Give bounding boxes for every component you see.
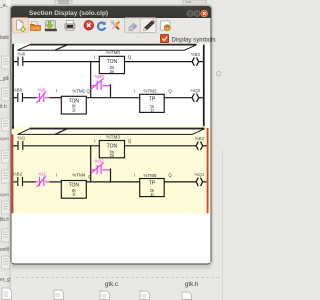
coil %B0 <box>191 52 203 66</box>
svg-text:%I0: %I0 <box>38 87 46 92</box>
drawing area <box>12 44 211 264</box>
svg-text:%B0: %B0 <box>191 52 201 57</box>
svg-text:lib.h: lib.h <box>0 217 9 223</box>
contact %I0 rung1 <box>14 51 26 66</box>
wire rung3 to timer <box>23 145 99 147</box>
wire rung2 a <box>23 97 36 99</box>
print <box>65 20 75 30</box>
svg-text:%I1: %I1 <box>18 136 26 141</box>
right power rail (section 2, powered red) <box>207 128 209 213</box>
wire TM4 to TM5 <box>86 181 139 183</box>
bottom file manager area <box>2 278 219 300</box>
wire TM1 to TM2 <box>86 97 139 99</box>
svg-text:%TM0: %TM0 <box>106 50 120 55</box>
rung separator bar 1 <box>18 45 197 51</box>
wire TM3 to coil <box>125 145 197 147</box>
svg-text:%B2: %B2 <box>195 136 205 141</box>
svg-text:I: I <box>94 139 95 144</box>
toolbar <box>12 18 170 33</box>
timer TM5 <box>134 173 173 197</box>
rung separator bar 2 <box>18 129 205 135</box>
svg-text:TP: TP <box>149 181 156 187</box>
svg-text:%TM2: %TM2 <box>143 89 156 94</box>
open folder <box>31 22 41 31</box>
left power rail (section 1) <box>12 44 14 129</box>
delete (red X) <box>84 20 94 30</box>
svg-text:%I0: %I0 <box>18 51 26 56</box>
branch contact %B0 (forced NC) <box>91 74 111 90</box>
contact %I0 (forced NC) rung2 <box>36 87 50 103</box>
contact %I1 rung3 <box>13 136 25 151</box>
timer TM0 <box>94 50 132 74</box>
branch left vertical wire 2 <box>90 146 92 183</box>
svg-text:_gtk: _gtk <box>0 76 10 82</box>
coil %Q1 <box>195 172 207 186</box>
display symbols checkbox <box>160 34 168 42</box>
coil %Q0 <box>191 88 203 102</box>
svg-text:TP: TP <box>149 96 156 102</box>
timer TM3 <box>94 134 132 158</box>
lock icon <box>160 21 170 31</box>
branch contact %B2 (forced NC) <box>91 158 111 174</box>
svg-text:%Q1: %Q1 <box>195 172 205 177</box>
svg-text:I: I <box>134 173 135 178</box>
wire TM2 to coil <box>164 97 192 99</box>
svg-text:2s: 2s <box>110 153 114 158</box>
svg-text:gtk.h: gtk.h <box>185 281 199 288</box>
wire TM5 to coil <box>164 181 196 183</box>
svg-text:%TM5: %TM5 <box>143 173 156 178</box>
svg-text:I: I <box>94 55 95 60</box>
wire rung4 a <box>23 181 36 183</box>
wire rung1 to timer <box>23 61 99 63</box>
title bar <box>11 6 211 18</box>
left strip window behind <box>0 0 11 300</box>
svg-text:gtk.c: gtk.c <box>105 281 118 288</box>
svg-text:2s: 2s <box>110 69 114 74</box>
eraser icon <box>129 23 137 30</box>
contact %I1 (forced NC) rung4 <box>36 172 50 188</box>
timer TM4 <box>56 172 92 198</box>
refresh (blue) <box>98 21 106 29</box>
right power rail (section 1) <box>203 45 205 127</box>
timer TM2 <box>134 89 173 113</box>
svg-text:%Q0: %Q0 <box>191 88 201 93</box>
svg-text:%B2: %B2 <box>13 172 23 177</box>
svg-text:%TM3: %TM3 <box>106 134 120 139</box>
svg-text:%B0: %B0 <box>94 74 104 79</box>
desktop background <box>0 0 224 300</box>
preferences (tools) <box>111 20 120 29</box>
new button (highlighted) <box>12 18 28 33</box>
wire TM0 to coil <box>125 61 193 63</box>
svg-text:ladd: ladd <box>0 35 10 41</box>
save <box>45 21 57 32</box>
svg-text:%B0: %B0 <box>13 87 23 92</box>
svg-text:%B2: %B2 <box>94 158 104 163</box>
edit button group frame <box>125 18 157 33</box>
svg-text:I: I <box>134 89 135 94</box>
svg-text:Section Display (solo.clp): Section Display (solo.clp) <box>29 10 108 17</box>
svg-text:I: I <box>56 172 57 177</box>
svg-text:er_g: er_g <box>0 277 10 283</box>
svg-text:%TM4: %TM4 <box>72 173 85 178</box>
coil %B2 <box>195 136 207 150</box>
wire rung4 b <box>50 181 62 183</box>
wire rung2 b <box>50 97 62 99</box>
svg-text:Display symbols: Display symbols <box>172 36 216 43</box>
checkbox row <box>160 34 215 43</box>
window shadow <box>10 5 213 267</box>
svg-text:I: I <box>56 88 57 93</box>
branch left vertical wire <box>90 62 92 99</box>
branch right vertical wire <box>110 84 112 98</box>
background fragments <box>0 0 206 300</box>
pencil button (active) <box>140 18 156 32</box>
window body <box>11 6 211 264</box>
left power rail (section 2, powered red) <box>12 134 14 213</box>
timer TM1 <box>56 88 90 114</box>
right strip <box>217 71 223 300</box>
svg-text:%I1: %I1 <box>38 172 46 177</box>
left rail stub above bar 2 <box>12 126 14 129</box>
contact %B2 rung4 <box>13 172 23 187</box>
svg-text:%TM1: %TM1 <box>72 89 85 94</box>
svg-text:it.h: it.h <box>0 104 7 110</box>
branch right vertical wire 2 <box>110 169 112 183</box>
contact %B0 rung2 <box>13 87 23 102</box>
current rung highlight background <box>12 126 211 213</box>
window buttons <box>187 10 207 17</box>
